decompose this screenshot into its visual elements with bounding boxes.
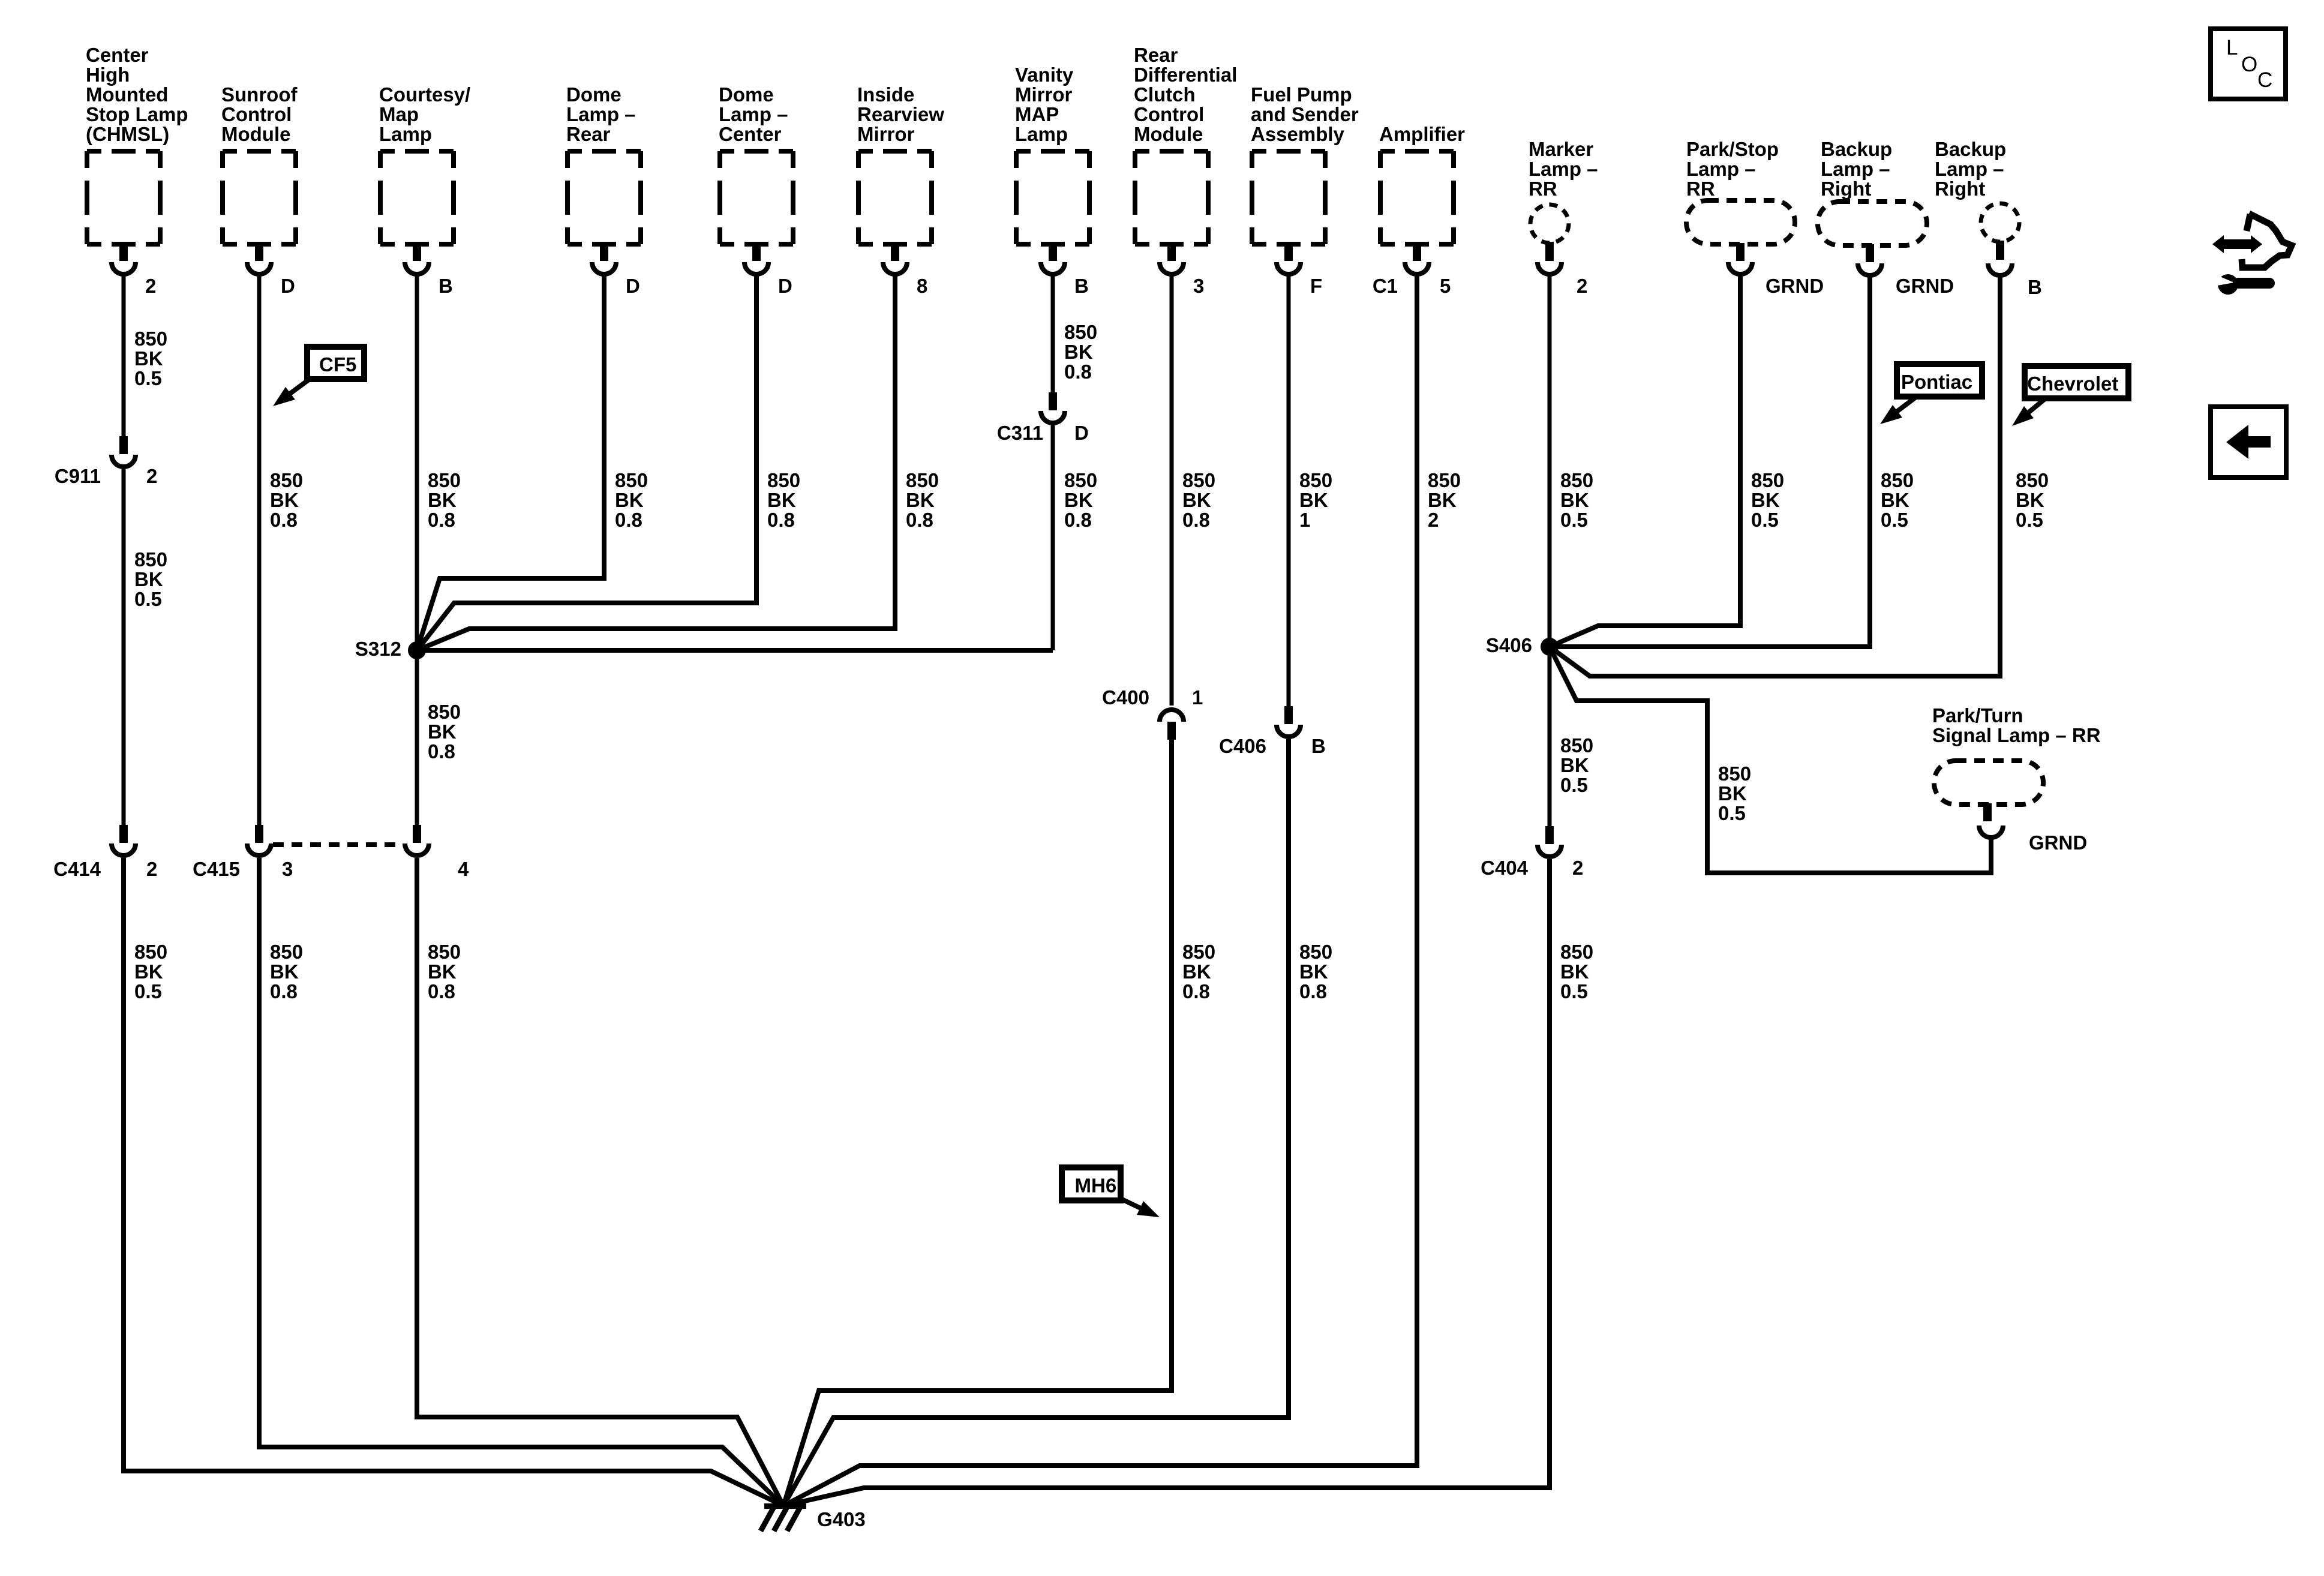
svg-text:850: 850	[1182, 941, 1215, 963]
pin label 5	[1440, 275, 1451, 297]
wire S312 to dome lamp center	[417, 275, 756, 650]
pin label 2 (C404)	[1572, 857, 1583, 879]
pin label 4 (C415)	[458, 858, 469, 880]
wire 850 BK 0.8 label (dome rear)	[615, 469, 648, 531]
callout Chevrolet	[2012, 366, 2128, 426]
connector pin 8 of inside rearview mirror	[883, 243, 907, 274]
wire 850 BK 0.5 label (marker lower)	[1560, 941, 1593, 1002]
wire S406 to backup lamp (circle)	[1550, 277, 2000, 676]
svg-text:BK: BK	[1718, 782, 1747, 804]
svg-text:850: 850	[1751, 469, 1784, 491]
svg-text:MH6: MH6	[1075, 1175, 1117, 1197]
marker lamp - RR (dashed circle)	[1530, 205, 1569, 243]
svg-text:BK: BK	[767, 489, 796, 511]
svg-text:BK: BK	[2016, 489, 2044, 511]
wire rear diff to ground	[783, 740, 1172, 1506]
wire 850 BK 0.8 label (dome center)	[767, 469, 800, 531]
connector pin D of dome lamp rear	[592, 243, 616, 274]
component dome lamp rear label	[566, 83, 636, 145]
pin label B	[1074, 275, 1089, 297]
svg-text:Right: Right	[1821, 178, 1871, 200]
svg-text:0.5: 0.5	[134, 367, 162, 389]
svg-text:850: 850	[1064, 469, 1097, 491]
svg-text:BK: BK	[428, 960, 457, 983]
svg-text:Vanity: Vanity	[1015, 64, 1074, 86]
svg-text:Rearview: Rearview	[857, 103, 944, 125]
svg-text:Backup: Backup	[1821, 138, 1892, 160]
svg-text:BK: BK	[1560, 489, 1589, 511]
wire S312 to inside rearview mirror	[417, 275, 895, 650]
pin label B (backup lamp circle)	[2028, 276, 2042, 298]
svg-text:B: B	[439, 275, 453, 297]
wire 850 BK 0.5 label (CHMSL middle)	[134, 548, 167, 610]
wire 850 BK 0.5 label (backup circle)	[2016, 469, 2049, 531]
svg-text:2: 2	[146, 858, 157, 880]
svg-text:4: 4	[458, 858, 469, 880]
svg-text:3: 3	[282, 858, 293, 880]
splice S406 dot	[1541, 638, 1559, 656]
svg-text:Park/Stop: Park/Stop	[1686, 138, 1779, 160]
svg-text:Lamp –: Lamp –	[719, 103, 788, 125]
pin label F	[1310, 275, 1322, 297]
svg-text:850: 850	[1718, 763, 1751, 785]
svg-text:0.5: 0.5	[1560, 774, 1588, 796]
svg-text:(CHMSL): (CHMSL)	[86, 123, 169, 145]
wire 850 BK 0.5 label (marker)	[1560, 469, 1593, 531]
svg-text:BK: BK	[134, 568, 163, 590]
svg-text:Marker: Marker	[1529, 138, 1593, 160]
component rear differential clutch control module label	[1134, 44, 1237, 145]
svg-text:3: 3	[1193, 275, 1204, 297]
svg-text:0.5: 0.5	[134, 588, 162, 610]
svg-text:Module: Module	[1134, 123, 1203, 145]
svg-text:Lamp –: Lamp –	[1686, 158, 1756, 180]
svg-text:Lamp: Lamp	[379, 123, 432, 145]
connector C404	[1538, 826, 1562, 857]
connector pin B of courtesy/map lamp	[405, 243, 429, 274]
component fuel pump and sender assembly box	[1252, 151, 1325, 244]
svg-text:BK: BK	[270, 489, 299, 511]
wire S406 to park/turn signal lamp	[1550, 647, 1991, 873]
pin label 3 (C415)	[282, 858, 293, 880]
svg-text:B: B	[2028, 276, 2042, 298]
svg-text:0.5: 0.5	[1718, 802, 1746, 824]
wire vanity upper segment	[1051, 275, 1055, 392]
svg-text:850: 850	[428, 701, 461, 723]
svg-text:BK: BK	[1560, 960, 1589, 983]
pin label GRND (park/stop lamp)	[1765, 275, 1824, 297]
svg-text:1: 1	[1299, 509, 1310, 531]
wire 850 BK 0.8 label (vanity upper)	[1064, 321, 1097, 383]
svg-text:RR: RR	[1529, 178, 1557, 200]
svg-text:0.8: 0.8	[428, 509, 455, 531]
svg-text:0.5: 0.5	[1881, 509, 1908, 531]
LOC legend box	[2211, 29, 2286, 99]
svg-text:Mounted: Mounted	[86, 83, 168, 106]
svg-text:Signal Lamp – RR: Signal Lamp – RR	[1932, 724, 2101, 746]
wire fuel pump upper segment	[1287, 275, 1291, 706]
svg-text:BK: BK	[428, 489, 457, 511]
pin label D	[281, 275, 295, 297]
pin label GRND (backup lamp oval)	[1896, 275, 1954, 297]
component courtesy/map lamp box	[380, 151, 454, 244]
svg-text:Lamp –: Lamp –	[566, 103, 636, 125]
svg-text:BK: BK	[1299, 960, 1328, 983]
svg-text:0.8: 0.8	[270, 509, 298, 531]
svg-text:Stop Lamp: Stop Lamp	[86, 103, 188, 125]
svg-text:850: 850	[270, 469, 303, 491]
svg-text:2: 2	[1428, 509, 1439, 531]
svg-text:0.5: 0.5	[1751, 509, 1779, 531]
park/stop lamp connector GRND	[1728, 243, 1752, 274]
splice S406 label	[1486, 634, 1532, 656]
component courtesy/map lamp label	[379, 83, 470, 145]
svg-text:850: 850	[428, 469, 461, 491]
svg-text:Center: Center	[86, 44, 149, 66]
connector pin D of dome lamp center	[744, 243, 768, 274]
svg-text:2: 2	[1577, 275, 1587, 297]
svg-text:0.8: 0.8	[428, 740, 455, 763]
svg-text:850: 850	[1428, 469, 1461, 491]
backup lamp - right (circle) label	[1935, 138, 2006, 200]
component vanity mirror map lamp box	[1016, 151, 1089, 244]
pin label 2 (C414)	[146, 858, 157, 880]
component dome lamp rear box	[568, 151, 641, 244]
svg-text:Right: Right	[1935, 178, 1985, 200]
svg-text:C406: C406	[1219, 735, 1266, 757]
svg-text:0.8: 0.8	[1299, 980, 1327, 1002]
component fuel pump and sender assembly label	[1251, 83, 1359, 145]
svg-text:Module: Module	[221, 123, 290, 145]
wire marker to ground	[783, 859, 1550, 1506]
svg-text:850: 850	[767, 469, 800, 491]
svg-text:Control: Control	[221, 103, 292, 125]
svg-text:G403: G403	[817, 1508, 866, 1530]
svg-text:B: B	[1074, 275, 1089, 297]
svg-text:Clutch: Clutch	[1134, 83, 1196, 106]
svg-text:BK: BK	[270, 960, 299, 983]
svg-text:850: 850	[1881, 469, 1914, 491]
component rear differential clutch control module box	[1135, 151, 1208, 244]
svg-text:2: 2	[146, 465, 157, 487]
svg-text:850: 850	[1064, 321, 1097, 343]
diagram-section icon (head with arrow and wrench)	[2212, 214, 2292, 295]
svg-text:C1: C1	[1373, 275, 1398, 297]
connector pin F of fuel pump and sender assembly	[1277, 243, 1301, 274]
svg-text:BK: BK	[1182, 489, 1211, 511]
svg-text:BK: BK	[1299, 489, 1328, 511]
wire 850 BK 0.8 label (fuel pump lower)	[1299, 941, 1332, 1002]
connector C414 label	[53, 858, 101, 880]
svg-text:C400: C400	[1102, 686, 1149, 709]
svg-text:CF5: CF5	[319, 353, 356, 376]
svg-text:BK: BK	[906, 489, 935, 511]
wire sunroof to ground	[259, 858, 783, 1506]
svg-text:850: 850	[428, 941, 461, 963]
svg-text:F: F	[1310, 275, 1322, 297]
svg-text:0.8: 0.8	[428, 980, 455, 1002]
svg-text:Control: Control	[1134, 103, 1204, 125]
wire 850 BK 0.8 label (rear diff upper)	[1182, 469, 1215, 531]
wire fuel pump to ground	[783, 739, 1289, 1506]
svg-text:and Sender: and Sender	[1251, 103, 1359, 125]
svg-text:D: D	[778, 275, 792, 297]
connector C400 (flipped)	[1160, 710, 1184, 740]
wire 850 BK 1 label (fuel pump)	[1299, 469, 1332, 531]
splice S312 dot	[408, 641, 426, 659]
callout MH6	[1062, 1167, 1160, 1217]
connector C404 label	[1481, 857, 1529, 879]
park/turn signal lamp - RR label	[1932, 704, 2101, 746]
wire courtesy upper segment	[415, 275, 419, 650]
svg-text:RR: RR	[1686, 178, 1715, 200]
svg-text:D: D	[1074, 422, 1089, 444]
svg-text:High: High	[86, 64, 130, 86]
svg-text:Lamp –: Lamp –	[1529, 158, 1598, 180]
svg-text:0.8: 0.8	[1182, 509, 1210, 531]
svg-text:BK: BK	[1064, 341, 1093, 363]
svg-text:BK: BK	[1182, 960, 1211, 983]
back-arrow legend box	[2211, 407, 2286, 478]
svg-text:Center: Center	[719, 123, 782, 145]
svg-text:850: 850	[1560, 734, 1593, 757]
pin label 3	[1193, 275, 1204, 297]
connector pin 3 of rear differential clutch control module	[1160, 243, 1184, 274]
svg-text:Backup: Backup	[1935, 138, 2006, 160]
pin label 1 (C400)	[1192, 686, 1203, 709]
svg-text:Lamp –: Lamp –	[1821, 158, 1890, 180]
connector C406 label	[1219, 735, 1266, 757]
component sunroof control module box	[223, 151, 296, 244]
connector pin 4 (C415)	[405, 825, 429, 855]
callout CF5	[273, 347, 364, 406]
svg-text:850: 850	[2016, 469, 2049, 491]
wire 850 BK 0.5 label (backup oval)	[1881, 469, 1914, 531]
park/stop lamp - RR label	[1686, 138, 1779, 200]
connector C911 label	[55, 465, 101, 487]
wire rear diff upper segment	[1170, 275, 1174, 706]
wire 850 BK 0.8 label (below S312)	[428, 701, 461, 763]
component CHMSL box	[87, 151, 160, 244]
pin label D (C311)	[1074, 422, 1089, 444]
pin label 2	[145, 275, 156, 297]
svg-text:C911: C911	[55, 465, 101, 487]
svg-text:850: 850	[615, 469, 648, 491]
svg-text:L: L	[2226, 36, 2238, 59]
svg-text:0.8: 0.8	[1064, 509, 1092, 531]
park/stop lamp - RR (dashed oval)	[1686, 200, 1795, 244]
svg-text:C414: C414	[53, 858, 101, 880]
connector C311	[1041, 392, 1065, 423]
component sunroof control module label	[221, 83, 298, 145]
svg-text:C: C	[2257, 68, 2272, 92]
svg-text:Rear: Rear	[1134, 44, 1178, 66]
svg-text:Dome: Dome	[566, 83, 621, 106]
wire 850 BK 0.5 label (park/turn branch)	[1718, 763, 1751, 824]
park/turn signal lamp connector GRND	[1979, 803, 2003, 837]
connector C415 label	[193, 858, 240, 880]
svg-text:S312: S312	[355, 638, 401, 660]
svg-text:0.8: 0.8	[1182, 980, 1210, 1002]
wire 850 BK 0.8 label (mirror)	[906, 469, 939, 531]
park/turn signal lamp - RR (dashed oval)	[1934, 761, 2043, 804]
svg-text:BK: BK	[615, 489, 644, 511]
svg-text:0.8: 0.8	[906, 509, 933, 531]
wire 850 BK 0.8 label (rear diff lower)	[1182, 941, 1215, 1002]
component amplifier label	[1379, 123, 1465, 145]
svg-text:D: D	[626, 275, 640, 297]
wire 850 BK 2 label (amplifier)	[1428, 469, 1461, 531]
backup lamp - right (dashed circle)	[1981, 203, 2019, 242]
backup lamp - right (dashed oval)	[1818, 202, 1927, 245]
svg-text:Fuel Pump: Fuel Pump	[1251, 83, 1352, 106]
component vanity mirror map lamp label	[1015, 64, 1074, 145]
wire 850 BK 0.5 label (below S406)	[1560, 734, 1593, 796]
svg-text:Mirror: Mirror	[1015, 83, 1073, 106]
svg-text:0.8: 0.8	[767, 509, 795, 531]
wire 850 BK 0.8 label (sunroof)	[270, 469, 303, 531]
callout Pontiac	[1880, 364, 1982, 424]
svg-text:850: 850	[134, 328, 167, 350]
marker lamp - RR label	[1529, 138, 1598, 200]
svg-text:BK: BK	[134, 347, 163, 370]
connector C414	[112, 825, 136, 855]
connector pin B of vanity mirror map lamp	[1041, 243, 1065, 274]
pin label D	[626, 275, 640, 297]
svg-text:0.5: 0.5	[2016, 509, 2043, 531]
backup lamp oval connector GRND	[1858, 244, 1882, 275]
svg-text:Lamp –: Lamp –	[1935, 158, 2004, 180]
pin label 2 (marker lamp)	[1577, 275, 1587, 297]
svg-text:0.8: 0.8	[615, 509, 642, 531]
backup lamp - right (oval) label	[1821, 138, 1892, 200]
connector C311 label	[997, 422, 1043, 444]
wire 850 BK 0.5 label (park/stop)	[1751, 469, 1784, 531]
svg-text:0.8: 0.8	[270, 980, 298, 1002]
component dome lamp center box	[720, 151, 793, 244]
wire S312 to vanity mirror lamp	[417, 648, 1053, 653]
svg-text:Mirror: Mirror	[857, 123, 915, 145]
component dome lamp center label	[719, 83, 788, 145]
connector pin 5 of amplifier	[1405, 243, 1429, 274]
wire CHMSL to ground	[124, 858, 783, 1506]
wire 850 BK 0.8 label (below C311)	[1064, 469, 1097, 531]
pin label D	[778, 275, 792, 297]
svg-text:D: D	[281, 275, 295, 297]
svg-text:GRND: GRND	[1765, 275, 1824, 297]
svg-text:BK: BK	[134, 960, 163, 983]
wire 850 BK 0.5 label (CHMSL lower)	[134, 941, 167, 1002]
wire 850 BK 0.8 label (courtesy lower)	[428, 941, 461, 1002]
svg-text:GRND: GRND	[2029, 831, 2087, 854]
svg-text:BK: BK	[428, 721, 457, 743]
svg-text:Park/Turn: Park/Turn	[1932, 704, 2023, 727]
pin label 2 (C911)	[146, 465, 157, 487]
svg-text:5: 5	[1440, 275, 1451, 297]
pin label B (C406)	[1311, 735, 1326, 757]
svg-text:GRND: GRND	[1896, 275, 1954, 297]
wire S406 to backup lamp (oval)	[1550, 277, 1870, 647]
wire vanity lower segment	[1051, 425, 1055, 650]
svg-text:850: 850	[134, 941, 167, 963]
svg-text:8: 8	[917, 275, 927, 297]
wire sunroof upper segment	[257, 275, 262, 825]
svg-text:Pontiac: Pontiac	[1901, 371, 1972, 393]
wire courtesy lower segment	[415, 650, 419, 825]
svg-text:850: 850	[1560, 469, 1593, 491]
svg-text:850: 850	[1299, 469, 1332, 491]
svg-text:850: 850	[134, 548, 167, 571]
backup lamp circle connector B	[1988, 241, 2012, 275]
svg-text:850: 850	[1182, 469, 1215, 491]
svg-text:0.8: 0.8	[1064, 361, 1092, 383]
pin label GRND (park/turn signal lamp)	[2029, 831, 2087, 854]
svg-text:C404: C404	[1481, 857, 1529, 879]
svg-text:850: 850	[1560, 941, 1593, 963]
pin label C1	[1373, 275, 1398, 297]
marker lamp connector pin 2	[1538, 242, 1562, 274]
wire 850 BK 0.5 label (CHMSL upper)	[134, 328, 167, 389]
wire S312 to dome lamp rear	[417, 275, 604, 650]
dashed link C415 pin3 to pin4	[273, 842, 403, 847]
svg-text:Sunroof: Sunroof	[221, 83, 298, 106]
connector C911	[112, 436, 136, 467]
connector pin 2 of CHMSL	[112, 243, 136, 274]
svg-text:BK: BK	[1064, 489, 1093, 511]
wire amplifier to ground	[783, 275, 1417, 1506]
connector C415	[247, 825, 271, 855]
wire marker upper segment	[1548, 275, 1552, 647]
component inside rearview mirror box	[858, 151, 932, 244]
svg-text:850: 850	[906, 469, 939, 491]
svg-text:850: 850	[1299, 941, 1332, 963]
svg-text:2: 2	[145, 275, 156, 297]
wire S406 to park/stop lamp	[1550, 275, 1740, 647]
svg-text:1: 1	[1192, 686, 1203, 709]
ground G403 symbol	[761, 1503, 806, 1531]
svg-text:Assembly: Assembly	[1251, 123, 1345, 145]
svg-text:O: O	[2241, 53, 2257, 76]
svg-text:Map: Map	[379, 103, 419, 125]
wire 850 BK 0.8 label (sunroof lower)	[270, 941, 303, 1002]
svg-text:BK: BK	[1751, 489, 1780, 511]
svg-text:0.5: 0.5	[1560, 509, 1588, 531]
wire 850 BK 0.8 label (courtesy upper)	[428, 469, 461, 531]
pin label B	[439, 275, 453, 297]
wire courtesy to ground	[417, 858, 783, 1506]
connector C406	[1277, 706, 1301, 737]
svg-text:Differential: Differential	[1134, 64, 1237, 86]
svg-text:0.5: 0.5	[134, 980, 162, 1002]
connector pin D of sunroof control module	[247, 243, 271, 274]
svg-text:Dome: Dome	[719, 83, 774, 106]
svg-text:Courtesy/: Courtesy/	[379, 83, 470, 106]
wire CHMSL middle segment	[122, 469, 126, 825]
svg-text:MAP: MAP	[1015, 103, 1059, 125]
svg-text:Chevrolet: Chevrolet	[2027, 373, 2118, 395]
ground G403 label	[817, 1508, 866, 1530]
svg-text:C311: C311	[997, 422, 1043, 444]
connector C400 label	[1102, 686, 1149, 709]
svg-text:Rear: Rear	[566, 123, 611, 145]
wire CHMSL upper segment	[122, 275, 126, 436]
svg-text:850: 850	[270, 941, 303, 963]
splice S312 label	[355, 638, 401, 660]
wire marker lower segment	[1548, 647, 1552, 826]
svg-text:BK: BK	[1881, 489, 1909, 511]
svg-text:BK: BK	[1560, 754, 1589, 776]
svg-text:Lamp: Lamp	[1015, 123, 1068, 145]
